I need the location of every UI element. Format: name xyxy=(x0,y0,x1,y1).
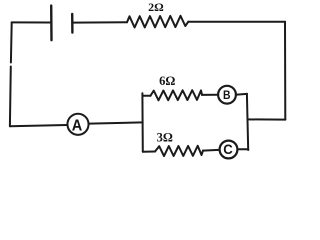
meter B circle xyxy=(218,86,236,104)
wire B branch left: resistor 6ohm to circle B xyxy=(202,94,217,96)
resistor R2 6ohm zigzag xyxy=(151,90,203,100)
wire right junction horizontal xyxy=(248,118,286,120)
wire C branch left: left vertical to resistor 3ohm xyxy=(143,151,155,153)
wire parallel-box right vertical xyxy=(247,94,248,150)
battery cell plate short xyxy=(71,14,74,33)
wire left vertical lower xyxy=(9,67,12,127)
wire C branch: resistor 3ohm to circle C xyxy=(203,149,219,152)
wire middle feed: left vertical to ammeter A xyxy=(89,122,142,123)
resistor R1 2ohm zigzag xyxy=(127,16,188,28)
wire B branch far-left: left vertical to resistor 6ohm xyxy=(143,95,151,97)
ammeter A circle xyxy=(67,114,88,135)
wire resistor 2ohm to top-right corner xyxy=(188,21,285,23)
wire parallel-box left vertical xyxy=(141,93,143,152)
svg-text:A: A xyxy=(72,118,83,135)
wire right vertical xyxy=(284,22,286,120)
meter C circle xyxy=(220,141,238,159)
svg-text:C: C xyxy=(223,142,233,157)
wire top-left: left corner to battery xyxy=(12,21,50,23)
resistor R3 3ohm zigzag xyxy=(155,146,203,156)
battery cell plate long xyxy=(50,6,53,41)
svg-text:3Ω: 3Ω xyxy=(157,130,173,144)
svg-text:2Ω: 2Ω xyxy=(148,0,164,14)
wire battery to resistor 2ohm xyxy=(73,21,127,23)
wire left vertical upper xyxy=(10,22,13,62)
wire bottom-left: ammeter A to left corner xyxy=(10,125,67,126)
svg-text:6Ω: 6Ω xyxy=(159,74,175,88)
wire C branch right: circle C to right vertical xyxy=(238,148,248,150)
wire B branch right: circle B to right vertical xyxy=(237,93,247,96)
svg-text:B: B xyxy=(223,88,231,102)
